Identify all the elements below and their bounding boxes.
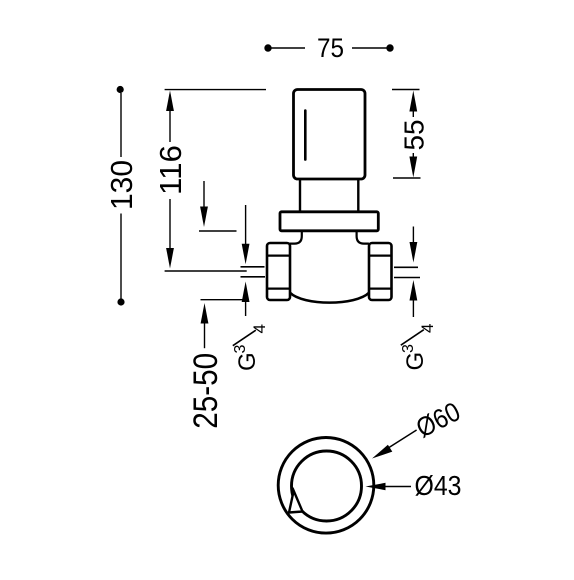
dimension 55 bottom tick [393, 177, 421, 179]
dimension 55 line [412, 111, 414, 157]
svg-text:3: 3 [232, 345, 249, 354]
svg-text:55: 55 [398, 120, 429, 151]
dimension 55 top tick [392, 89, 420, 91]
diameter 43 leader arrow [366, 483, 386, 490]
centerline extension left [165, 270, 247, 272]
wall reference line [199, 230, 237, 232]
flange [280, 212, 378, 231]
dimension 116 arrow down [166, 248, 174, 269]
body bottom arc [290, 293, 369, 303]
dimension 25-50 arrow up [201, 303, 209, 324]
svg-text:75: 75 [317, 33, 344, 63]
G3/4 left marker arrow down [245, 205, 247, 244]
dimension 116 line [169, 95, 171, 249]
svg-text:116: 116 [153, 145, 188, 195]
dimension 55 arrow down [409, 157, 417, 178]
G3/4 right marker arrow down [412, 227, 414, 243]
G3/4 right text [400, 324, 437, 371]
left shoulder [290, 231, 302, 244]
bottom reference line [201, 299, 244, 301]
G3/4 right marker arrow up [410, 280, 418, 301]
dimension 75 dot right [386, 44, 393, 51]
neck [300, 179, 358, 212]
top extension line [165, 89, 266, 91]
dimension 130 line [120, 93, 122, 299]
dimension 130 dot bottom [117, 298, 124, 305]
diameter 60 leader arrow [372, 445, 392, 459]
G3/4 left dash lower [241, 276, 266, 278]
G3/4 left marker arrow up [242, 282, 250, 303]
G3/4 right dash lower [394, 277, 420, 279]
G3/4 left dash upper [241, 266, 265, 268]
bottom view outer circle [278, 438, 374, 534]
svg-text:130: 130 [104, 160, 139, 210]
dimension 55 arrow up [409, 91, 417, 112]
bottom view inner circle [292, 451, 362, 521]
right shoulder [357, 231, 369, 244]
triangle marker [289, 491, 303, 513]
dimension 75 line [272, 47, 387, 49]
svg-text:3: 3 [400, 344, 417, 353]
dimension 130 dot top [117, 86, 124, 93]
dimension 116 arrow up [166, 91, 174, 112]
svg-text:25-50: 25-50 [187, 353, 225, 429]
G3/4 right dash upper [394, 266, 418, 268]
svg-text:G: G [402, 352, 429, 371]
dimension 25-50 arrow down [203, 181, 205, 207]
svg-text:Ø43: Ø43 [415, 470, 462, 501]
G3/4 left text [232, 324, 269, 371]
left fitting G3/4 nut [267, 243, 290, 300]
right fitting G3/4 nut [369, 243, 392, 300]
svg-text:G: G [234, 352, 261, 371]
handle slot [304, 111, 307, 160]
handle [294, 90, 366, 180]
dimension 75 dot left [264, 44, 271, 51]
